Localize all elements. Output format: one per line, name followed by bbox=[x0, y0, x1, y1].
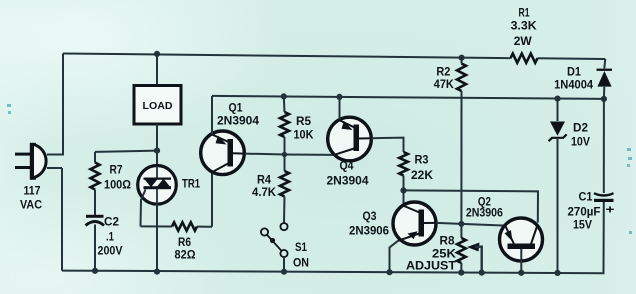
wire right to C1 bbox=[603, 99, 605, 193]
wire LOAD drop bbox=[156, 54, 158, 86]
wire R8 wiper bbox=[467, 243, 480, 252]
wire C2 to bus bbox=[94, 225, 96, 271]
potentiometer R8 bbox=[457, 238, 466, 263]
wire R2 upper lead bbox=[461, 58, 463, 64]
transistor Q3 bbox=[393, 202, 436, 245]
wire node to Q2 link bbox=[404, 190, 539, 222]
wire gate to R6 bbox=[141, 225, 173, 227]
switch S1 bbox=[280, 223, 287, 230]
node Q3 base junction bbox=[458, 221, 464, 227]
wire Q3 base link bbox=[436, 223, 506, 226]
wire R5 upper lead bbox=[283, 96, 286, 112]
wire Q4 emitter link bbox=[285, 154, 335, 156]
node S1 bus junction bbox=[281, 269, 287, 275]
diode D1 bbox=[597, 69, 613, 71]
node R3 Q3 junction bbox=[400, 187, 406, 193]
node Q1 base R5 R4 junction bbox=[282, 152, 287, 157]
resistor R7 bbox=[91, 163, 100, 190]
resistor R4 bbox=[280, 171, 289, 197]
svg-text:R8: R8 bbox=[440, 234, 455, 248]
wire D2 to bus bbox=[557, 139, 559, 273]
transistor Q2 bbox=[500, 218, 543, 261]
svg-text:2N3906: 2N3906 bbox=[349, 224, 389, 238]
node Q4 rail junction bbox=[336, 94, 342, 100]
svg-text:2W: 2W bbox=[514, 34, 532, 48]
capacitor C1 bbox=[594, 193, 614, 195]
svg-text:ON: ON bbox=[293, 256, 309, 270]
wire Q3 emitter lead bbox=[390, 241, 399, 272]
node D1 junction bbox=[601, 96, 607, 102]
svg-text:TR1: TR1 bbox=[182, 177, 200, 191]
svg-text:D2: D2 bbox=[573, 121, 588, 135]
wire plug lower riser bbox=[61, 168, 63, 271]
node R7 branch junction bbox=[154, 148, 160, 154]
resistor R6 bbox=[172, 222, 197, 230]
wire S1 to bus bbox=[283, 257, 285, 271]
wire D2 upper lead bbox=[557, 99, 559, 121]
wire Q1 emitter riser bbox=[211, 96, 213, 134]
svg-text:270µF: 270µF bbox=[568, 205, 601, 219]
resistor R1 bbox=[511, 54, 538, 63]
wire plug upper riser bbox=[62, 54, 64, 155]
wire R4 to S1 bbox=[283, 197, 286, 223]
wire C1 to bus bbox=[603, 202, 605, 273]
svg-text:10V: 10V bbox=[571, 135, 591, 149]
wire TR1 gate lead bbox=[141, 190, 146, 227]
svg-text:117: 117 bbox=[24, 184, 41, 198]
wire R5 to junction bbox=[284, 137, 286, 154]
node top-rail LOAD junction bbox=[154, 51, 160, 57]
svg-text:D1: D1 bbox=[567, 65, 581, 79]
wire R6 to Q1 bbox=[197, 226, 212, 228]
wire top rail bbox=[63, 54, 511, 59]
svg-text:Q1: Q1 bbox=[229, 101, 243, 115]
wire R7 top link bbox=[95, 151, 157, 152]
svg-text:100Ω: 100Ω bbox=[104, 178, 131, 192]
svg-text:.1: .1 bbox=[106, 230, 114, 244]
wire LOAD to TR1 bbox=[156, 124, 158, 166]
resistor R3 bbox=[399, 152, 408, 176]
wire R7 to C2 bbox=[94, 190, 96, 216]
svg-text:C1: C1 bbox=[579, 190, 593, 204]
svg-text:S1: S1 bbox=[295, 240, 307, 254]
svg-text:R5: R5 bbox=[296, 114, 311, 128]
wire plug upper stub bbox=[47, 154, 64, 156]
wire R8 to bus bbox=[460, 263, 462, 273]
svg-text:22K: 22K bbox=[411, 168, 433, 182]
wire Q4 base link bbox=[371, 138, 403, 152]
svg-text:4.7K: 4.7K bbox=[252, 185, 276, 199]
plug 117 VAC bbox=[15, 153, 31, 156]
wire D1 to node bbox=[603, 87, 605, 99]
node D2 bus junction bbox=[554, 270, 560, 276]
wire bottom bus bbox=[62, 271, 604, 274]
node Q2 bus junction bbox=[518, 270, 524, 276]
capacitor C2 bbox=[86, 215, 104, 218]
node D2 rail junction bbox=[554, 96, 560, 102]
svg-text:VAC: VAC bbox=[20, 198, 42, 212]
transistor Q4 bbox=[328, 117, 372, 161]
wire plug lower stub bbox=[47, 167, 62, 169]
node TR1 bus junction bbox=[154, 269, 160, 275]
svg-text:2N3906: 2N3906 bbox=[466, 206, 503, 220]
wire R3 to node bbox=[403, 176, 405, 191]
node R8 bus junction bbox=[458, 270, 464, 276]
wire right corner bbox=[604, 59, 605, 68]
svg-text:ADJUST: ADJUST bbox=[406, 259, 456, 273]
wire middle rail bbox=[212, 96, 604, 99]
svg-text:2N3904: 2N3904 bbox=[327, 174, 369, 188]
scan edge marks bbox=[7, 104, 632, 234]
wire Q1 collector riser bbox=[211, 172, 213, 226]
wire Q2 collector to bus bbox=[520, 249, 522, 273]
resistor R5 bbox=[280, 112, 289, 137]
wire R2 to R8 bbox=[460, 91, 462, 238]
svg-text:+: + bbox=[606, 203, 615, 217]
triac TR1 bbox=[138, 166, 177, 205]
wire TR1 to bus bbox=[156, 204, 158, 272]
svg-text:47K: 47K bbox=[434, 77, 454, 91]
node C2 bus junction bbox=[92, 268, 98, 274]
svg-text:200V: 200V bbox=[98, 244, 124, 258]
transistor Q1 bbox=[201, 131, 245, 175]
svg-text:Q3: Q3 bbox=[363, 209, 377, 223]
svg-text:LOAD: LOAD bbox=[143, 100, 173, 112]
svg-text:3.3K: 3.3K bbox=[511, 19, 537, 33]
svg-text:2N3904: 2N3904 bbox=[217, 114, 259, 128]
node R5 rail junction bbox=[281, 93, 287, 99]
svg-text:1N4004: 1N4004 bbox=[554, 78, 593, 92]
load box bbox=[134, 86, 181, 125]
svg-text:15V: 15V bbox=[573, 218, 593, 232]
wire Q3 collector lead bbox=[403, 190, 405, 205]
svg-text:C2: C2 bbox=[104, 215, 119, 229]
svg-text:Q4: Q4 bbox=[340, 159, 354, 173]
wire R7 upper lead bbox=[94, 152, 96, 163]
node Q3 emitter bus junction bbox=[386, 269, 392, 275]
svg-text:82Ω: 82Ω bbox=[175, 248, 196, 262]
node R2 top junction bbox=[459, 55, 465, 61]
svg-text:10K: 10K bbox=[294, 128, 314, 142]
svg-text:R3: R3 bbox=[415, 153, 429, 167]
wire Q4 emitter riser bbox=[339, 97, 341, 120]
resistor R2 bbox=[457, 64, 466, 92]
wire Q1 base link bbox=[245, 153, 285, 156]
node wiper bus junction bbox=[479, 270, 485, 276]
svg-text:R7: R7 bbox=[110, 163, 123, 177]
wire R4 upper lead bbox=[284, 154, 286, 171]
svg-text:R1: R1 bbox=[519, 6, 530, 20]
zener diode D2 bbox=[550, 122, 565, 136]
